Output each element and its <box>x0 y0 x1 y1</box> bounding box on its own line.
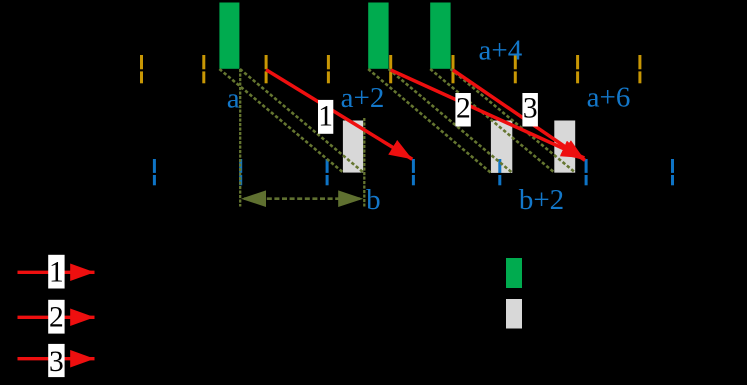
white box step 3 <box>522 93 538 127</box>
svg-text:b+2: b+2 <box>519 184 564 216</box>
top axis tick 2 <box>202 55 205 83</box>
svg-text:2: 2 <box>456 93 471 125</box>
svg-text:a+2: a+2 <box>341 82 385 114</box>
top axis tick 9 <box>638 55 641 83</box>
legend box 1 <box>48 255 64 289</box>
svg-text:a+4: a+4 <box>479 35 523 67</box>
legend arrow 2 <box>18 316 95 319</box>
top axis tick 3 <box>265 55 268 83</box>
green input block 3 <box>430 3 450 69</box>
dashed vertical guide at x=240 <box>239 69 241 207</box>
bottom axis tick 1 <box>153 159 156 185</box>
bottom axis tick 3 <box>326 159 329 185</box>
green input block 2 <box>368 3 388 69</box>
svg-text:1: 1 <box>318 101 333 133</box>
legend box 3 <box>48 344 64 377</box>
legend arrow 3 <box>18 357 95 360</box>
svg-text:3: 3 <box>49 346 64 378</box>
red arrow 2 <box>391 70 585 158</box>
svg-text:1: 1 <box>49 257 64 289</box>
bottom axis tick 5 <box>498 159 501 185</box>
gray output block 1 <box>343 121 363 173</box>
bottom axis tick 4 <box>412 159 415 185</box>
svg-text:b: b <box>366 184 381 216</box>
legend arrow 1 <box>18 271 95 274</box>
bottom axis black line notch <box>140 173 685 175</box>
gray output block 2 <box>491 121 512 174</box>
legend green swatch <box>506 258 522 288</box>
dashed diagonal from block2 right corner <box>389 69 513 173</box>
svg-text:a+6: a+6 <box>587 82 631 114</box>
left head of distance arrow <box>241 190 266 207</box>
green input block 1 <box>219 3 239 69</box>
white box step 2 <box>455 93 470 127</box>
top axis tick 8 <box>576 55 579 83</box>
dashed diagonal from block3 left corner <box>430 69 554 173</box>
bottom axis tick 7 <box>671 159 674 185</box>
dashed diagonal from block3 right corner <box>451 69 576 173</box>
white box step 1 <box>318 100 333 134</box>
top axis tick 6 <box>452 55 455 83</box>
legend box 2 <box>48 300 64 334</box>
dashed diagonal from block1 right corner <box>240 69 363 172</box>
top axis tick 4 <box>327 55 330 83</box>
bottom axis tick 6 <box>585 159 588 185</box>
dashed double-headed distance arrow b <box>244 197 360 200</box>
top axis tick 7 <box>514 55 517 83</box>
top axis black line notch <box>130 69 655 71</box>
bottom axis tick 2 <box>239 159 242 185</box>
dashed diagonal from block1 left corner <box>219 69 343 172</box>
top axis tick 5 <box>389 55 392 83</box>
right head of distance arrow <box>338 190 363 207</box>
top axis tick 1 <box>140 55 143 83</box>
dashed vertical guide at x=364 <box>363 118 365 207</box>
red arrow 1 <box>266 70 412 160</box>
svg-text:a: a <box>227 82 240 114</box>
dashed diagonal from block2 left corner <box>368 69 491 173</box>
svg-text:2: 2 <box>49 302 64 334</box>
legend gray swatch <box>506 299 522 329</box>
gray output block 3 <box>554 121 575 173</box>
svg-text:3: 3 <box>523 93 538 125</box>
red arrow 3 <box>453 70 585 160</box>
